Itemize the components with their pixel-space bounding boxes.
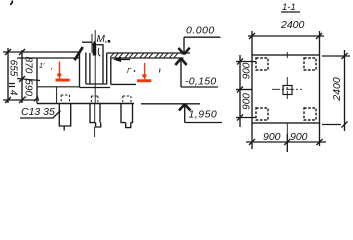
svg-text:900: 900 <box>242 62 253 79</box>
top dim line <box>248 35 324 37</box>
tiny mark near left red <box>39 63 53 76</box>
anchor bolt blob <box>92 41 97 56</box>
top dim text 2400 <box>280 19 305 31</box>
wire floor line A left <box>3 51 81 53</box>
short line right of bolt <box>97 44 104 46</box>
top extension lines <box>251 31 253 55</box>
leader line to elevation 1.950 <box>141 103 200 105</box>
pile right bottom hook <box>126 123 131 128</box>
svg-text:М,: М, <box>97 34 108 45</box>
pile middle <box>90 104 100 123</box>
svg-text:655: 655 <box>8 60 19 77</box>
construction joint line <box>37 86 80 88</box>
right dim ticks <box>342 53 348 128</box>
svg-text:900: 900 <box>263 131 281 143</box>
center column square <box>283 86 292 95</box>
column axis line <box>94 30 96 103</box>
rotated dim text 590 <box>23 79 34 98</box>
bottom extension lines <box>251 123 253 149</box>
elevation diag arrow at column <box>75 47 83 60</box>
foundation cap bottom <box>37 103 134 105</box>
column seat line <box>86 83 107 85</box>
svg-text:-0,150: -0,150 <box>185 76 217 88</box>
bottom dim ticks <box>249 139 323 145</box>
pile label C13 35 <box>21 106 55 118</box>
column edge left <box>89 53 91 84</box>
rotated dim text 870 <box>23 57 34 74</box>
small mark above label <box>34 97 39 102</box>
pile left bottom tick <box>63 126 65 131</box>
svg-text:1': 1' <box>39 63 45 70</box>
hidden pile top left (dashed) <box>61 95 69 103</box>
bolt rod line <box>91 34 93 53</box>
ground hatching <box>110 54 178 58</box>
red mark right <box>137 63 151 82</box>
svg-text:1,950: 1,950 <box>189 109 218 121</box>
right dim extension lines <box>322 55 350 57</box>
right dim text 2400 rotated <box>331 77 343 102</box>
svg-text:С13 35: С13 35 <box>21 106 55 118</box>
elevation mark 0.000 <box>178 25 220 55</box>
pile left <box>59 104 70 127</box>
bottom dim line <box>246 141 326 143</box>
svg-text:4: 4 <box>8 90 19 96</box>
svg-text:2400: 2400 <box>331 77 343 102</box>
M label <box>97 34 111 45</box>
bottom dim texts <box>263 131 308 143</box>
left dim ticks <box>237 59 243 121</box>
column edge right <box>102 45 104 84</box>
left dim line <box>239 55 241 127</box>
short vertical at joint <box>56 87 58 103</box>
title 1-1 <box>282 2 296 13</box>
right dim line <box>344 50 346 131</box>
center axes <box>272 88 302 90</box>
wire bottom extension <box>3 99 37 101</box>
glass bottom outer <box>80 87 111 89</box>
svg-text:900: 900 <box>290 131 308 143</box>
elevation mark 1.950 <box>179 104 222 122</box>
elevation mark -0.150 <box>175 59 218 88</box>
top dim ticks <box>249 33 322 39</box>
pile right <box>121 104 133 123</box>
shelf line at column <box>82 41 93 43</box>
pile middle bottom hook <box>96 123 101 127</box>
wire cap top line B right <box>111 57 184 59</box>
wire dim line 1 outer <box>7 48 9 103</box>
stray paren top-left <box>10 1 12 5</box>
rotated dim text outer <box>8 60 19 77</box>
svg-text:590,: 590, <box>23 79 34 98</box>
pile axis below <box>94 103 96 137</box>
wire cap top line B left <box>17 57 80 59</box>
svg-text:2400: 2400 <box>280 19 305 31</box>
bolt TL dashed <box>256 58 268 70</box>
bolt BR dashed <box>304 108 316 120</box>
wire dim line 2 inner <box>21 50 23 103</box>
left dim extension lines <box>236 61 256 63</box>
glass wall right lining <box>106 53 108 84</box>
svg-text:900: 900 <box>242 93 253 110</box>
tick marks left chain <box>5 49 25 103</box>
step ledge right of glass <box>111 83 136 85</box>
bolt BL dashed <box>256 108 268 120</box>
tiny mark near right red <box>127 68 135 75</box>
glass wall left lining <box>85 53 87 85</box>
glass wall outer left <box>79 53 81 88</box>
red mark left <box>56 62 70 82</box>
wire mid extension <box>17 79 40 81</box>
left dim texts rotated <box>242 62 253 110</box>
glass wall outer right <box>110 58 112 84</box>
plan square <box>252 55 320 123</box>
wire floor line A right <box>107 52 190 54</box>
black left arrow on line B <box>113 57 130 62</box>
small curl right of bolt <box>98 48 100 56</box>
bolt TR dashed <box>304 58 316 70</box>
svg-text:870: 870 <box>23 57 34 74</box>
hidden pile top right (dashed) <box>123 96 131 103</box>
hidden pile top middle (dashed) <box>91 96 98 103</box>
svg-text:0.000: 0.000 <box>186 25 215 37</box>
foundation cap left edge <box>36 58 38 104</box>
